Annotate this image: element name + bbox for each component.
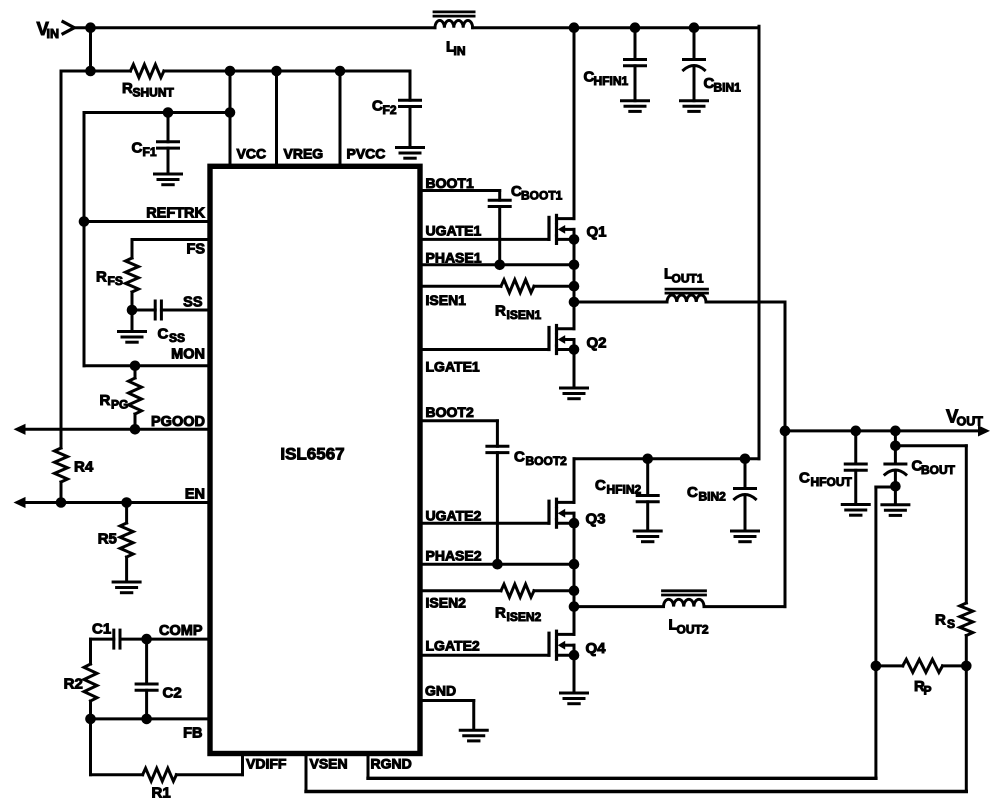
svg-text:P: P <box>924 684 932 698</box>
svg-text:BIN1: BIN1 <box>714 81 742 95</box>
svg-text:R2: R2 <box>64 676 83 693</box>
svg-text:OUT: OUT <box>957 415 984 429</box>
svg-text:VDIFF: VDIFF <box>246 756 287 772</box>
svg-text:MON: MON <box>171 347 205 363</box>
svg-text:PGOOD: PGOOD <box>151 414 205 430</box>
svg-text:LGATE2: LGATE2 <box>426 638 480 654</box>
svg-text:C1: C1 <box>92 621 111 638</box>
svg-text:IN: IN <box>454 44 466 58</box>
svg-text:EN: EN <box>185 487 205 503</box>
svg-text:VREG: VREG <box>284 146 324 162</box>
svg-text:ISEN1: ISEN1 <box>426 292 467 308</box>
svg-text:REFTRK: REFTRK <box>146 206 205 222</box>
svg-text:COMP: COMP <box>159 623 203 639</box>
svg-text:Q3: Q3 <box>586 511 606 528</box>
svg-text:FS: FS <box>186 242 205 258</box>
svg-text:R: R <box>495 303 506 320</box>
svg-text:VSEN: VSEN <box>310 756 348 772</box>
svg-text:PHASE2: PHASE2 <box>426 548 482 564</box>
svg-text:C: C <box>687 484 698 501</box>
svg-text:SHUNT: SHUNT <box>133 86 175 100</box>
svg-text:R: R <box>122 80 133 97</box>
svg-text:VCC: VCC <box>237 146 267 162</box>
svg-text:R: R <box>100 392 111 409</box>
svg-text:Q1: Q1 <box>587 224 607 241</box>
svg-text:C2: C2 <box>163 685 182 702</box>
svg-text:HFIN1: HFIN1 <box>594 74 629 88</box>
svg-text:ISEN1: ISEN1 <box>507 308 542 322</box>
svg-text:ISL6567: ISL6567 <box>280 445 344 464</box>
svg-text:GND: GND <box>425 683 456 699</box>
svg-text:UGATE1: UGATE1 <box>426 223 482 239</box>
svg-text:Q2: Q2 <box>587 335 607 352</box>
svg-text:C: C <box>158 326 169 343</box>
svg-text:FB: FB <box>183 726 202 742</box>
svg-text:F1: F1 <box>143 145 157 159</box>
svg-text:FS: FS <box>108 274 123 288</box>
svg-text:LGATE1: LGATE1 <box>426 359 480 375</box>
svg-text:ISEN2: ISEN2 <box>426 595 467 611</box>
svg-text:R: R <box>935 612 946 629</box>
svg-text:R1: R1 <box>152 785 171 802</box>
svg-text:R: R <box>495 605 506 622</box>
svg-text:C: C <box>372 98 383 115</box>
svg-text:C: C <box>595 477 606 494</box>
svg-text:BOOT2: BOOT2 <box>526 454 568 468</box>
svg-text:R4: R4 <box>74 459 94 476</box>
svg-text:S: S <box>947 617 955 631</box>
svg-text:ISEN2: ISEN2 <box>507 610 542 624</box>
svg-text:OUT2: OUT2 <box>677 623 709 637</box>
svg-text:OUT1: OUT1 <box>672 272 704 286</box>
svg-text:PHASE1: PHASE1 <box>426 250 482 266</box>
svg-text:BOOT2: BOOT2 <box>426 404 474 420</box>
svg-text:SS: SS <box>183 295 203 311</box>
svg-text:BOUT: BOUT <box>921 463 956 477</box>
svg-text:Q4: Q4 <box>586 640 607 657</box>
svg-text:R5: R5 <box>98 531 117 548</box>
svg-text:SS: SS <box>169 331 185 345</box>
svg-text:BOOT1: BOOT1 <box>426 175 474 191</box>
svg-text:HFIN2: HFIN2 <box>607 483 642 497</box>
svg-text:BIN2: BIN2 <box>699 490 727 504</box>
svg-text:R: R <box>96 269 107 286</box>
svg-text:HFOUT: HFOUT <box>811 475 853 489</box>
svg-text:RGND: RGND <box>371 756 412 772</box>
svg-text:PVCC: PVCC <box>347 146 386 162</box>
svg-text:IN: IN <box>47 27 60 41</box>
svg-text:PG: PG <box>111 398 128 412</box>
svg-text:BOOT1: BOOT1 <box>521 189 563 203</box>
svg-text:UGATE2: UGATE2 <box>426 508 482 524</box>
svg-text:F2: F2 <box>383 103 397 117</box>
svg-text:C: C <box>132 140 143 157</box>
svg-text:C: C <box>799 470 810 487</box>
svg-text:C: C <box>514 449 525 466</box>
